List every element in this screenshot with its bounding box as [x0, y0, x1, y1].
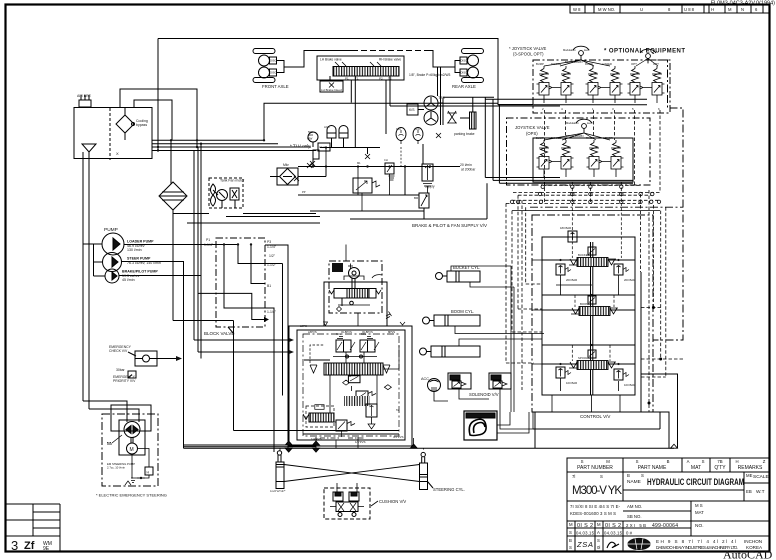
- svg-text:UNIT: UNIT: [334, 268, 341, 272]
- svg-text:lever: lever: [584, 48, 590, 52]
- svg-text:1-1/4": 1-1/4": [267, 310, 277, 314]
- supply reducing valve: [422, 164, 433, 181]
- svg-text:PUMP: PUMP: [104, 227, 118, 233]
- svg-text:AM NO.: AM NO.: [627, 504, 642, 509]
- spool 1: [569, 258, 616, 267]
- svg-text:MAT: MAT: [695, 510, 704, 515]
- svg-text:M W NO.: M W NO.: [598, 7, 615, 12]
- return filter: [159, 140, 187, 214]
- wire: bundle drop verticals: [193, 151, 195, 341]
- svg-text:CH: CH: [384, 158, 388, 162]
- wire: MCV bottom to cushion/bus: [285, 437, 677, 452]
- svg-text:H: H: [735, 459, 738, 464]
- rail interdrops: [312, 159, 314, 167]
- svg-text:30bar: 30bar: [116, 368, 126, 372]
- svg-text:BRAKE/PILOT PUMP: BRAKE/PILOT PUMP: [122, 270, 158, 274]
- drops below valve to manifold: [552, 395, 620, 412]
- wire: block valve outputs: [265, 245, 288, 448]
- svg-text:LOWER: LOWER: [602, 62, 612, 66]
- steering unit: [324, 261, 406, 326]
- wire: cluster verticals: [404, 167, 406, 196]
- svg-text:DISC: DISC: [270, 71, 277, 75]
- svg-text:M: M: [606, 459, 610, 464]
- pilot rail: [320, 147, 380, 149]
- svg-text:BOOM CYL.: BOOM CYL.: [451, 309, 474, 314]
- svg-text:b/W: b/W: [307, 137, 313, 141]
- svg-text:100 BAR: 100 BAR: [624, 383, 635, 387]
- svg-text:PART NAME: PART NAME: [638, 465, 667, 471]
- brake valve assembly: [317, 56, 451, 92]
- svg-text:supply: supply: [425, 185, 435, 189]
- svg-text:7l: 7l: [572, 474, 575, 479]
- svg-text:3: 3: [11, 538, 18, 553]
- svg-text:* ELECTRIC EMERGENCY STEERI: * ELECTRIC EMERGENCY STEERING: [96, 493, 167, 498]
- svg-text:REAR AXLE: REAR AXLE: [452, 84, 476, 89]
- svg-text:(OPS): (OPS): [526, 131, 538, 136]
- cushion valve: [324, 483, 406, 519]
- svg-text:S: S: [641, 473, 644, 478]
- control valve bank: [532, 203, 653, 419]
- pressure line: [590, 242, 592, 395]
- inner right vertical: [640, 272, 642, 412]
- svg-text:L8PVS: L8PVS: [308, 330, 317, 334]
- svg-text:* JOYSTICK VALVE: * JOYSTICK VALVE: [509, 46, 547, 51]
- svg-text:S: S: [569, 530, 572, 535]
- svg-text:S: S: [636, 459, 639, 464]
- wire: top-left return steps: [120, 89, 197, 147]
- svg-text:SOLENOID V/V: SOLENOID V/V: [469, 392, 499, 397]
- svg-text:BUMP: BUMP: [536, 62, 544, 66]
- svg-text:500: 500: [308, 130, 313, 134]
- front axle: [253, 49, 352, 90]
- svg-text:180 BAR: 180 BAR: [560, 226, 571, 230]
- node dots on bundle: [157, 139, 265, 152]
- relief pair row3: [556, 367, 571, 378]
- svg-text:RAISE: RAISE: [586, 136, 594, 140]
- svg-text:B: B: [627, 473, 630, 478]
- gauge: TLV: [308, 132, 318, 142]
- wire: steering unit connections: [345, 245, 347, 262]
- wire: MCV risers to bucket/boom: [412, 271, 445, 338]
- svg-text:200 BAR: 200 BAR: [566, 278, 577, 282]
- joystick valve 1 (3-spool opt): [509, 46, 685, 113]
- wire: main vertical from top line down to tank bundle: [157, 39, 159, 151]
- svg-text:0 #: 0 #: [626, 531, 633, 536]
- optional equipment boundary: [647, 60, 668, 95]
- relief below: [336, 420, 347, 431]
- svg-text:OPT: OPT: [631, 62, 637, 66]
- lower rails: [298, 194, 419, 196]
- wire: steer pump line drop: [183, 262, 185, 449]
- svg-text:W 8: W 8: [573, 7, 581, 12]
- internal galleries: [289, 338, 399, 437]
- svg-text:BRAKE & PILOT & FAN SUPPL: BRAKE & PILOT & FAN SUPPLY V/V: [412, 223, 487, 228]
- accumulators: [327, 126, 336, 139]
- below spool components: [348, 376, 360, 383]
- wire: brake valve ports down to pilot rail: [350, 80, 352, 103]
- svg-text:NO.: NO.: [695, 523, 704, 529]
- svg-text:REMARKS: REMARKS: [738, 465, 763, 471]
- svg-text:76.3 cc/rev, 140 l/min: 76.3 cc/rev, 140 l/min: [127, 261, 161, 265]
- svg-text:LOWER: LOWER: [603, 136, 613, 140]
- inlet relief: [568, 231, 577, 242]
- main supply rail: [298, 166, 460, 168]
- svg-text:M: M: [569, 522, 573, 527]
- svg-text:A: A: [687, 459, 690, 464]
- svg-text:0I S 2: 0I S 2: [605, 523, 621, 529]
- svg-text:T/M: T/M: [438, 96, 445, 100]
- svg-text:lever: lever: [587, 121, 593, 125]
- svg-text:DISC: DISC: [461, 71, 468, 75]
- svg-text:SOL: SOL: [361, 332, 367, 336]
- svg-text:Z: Z: [763, 459, 766, 464]
- svg-text:100 BAR: 100 BAR: [566, 381, 577, 385]
- svg-text:HYDRAULIC CIRCUIT DIAGRAM: HYDRAULIC CIRCUIT DIAGRAM: [647, 477, 744, 487]
- tank internal filter (cooling bypass): [116, 115, 134, 133]
- wire: control valve bottom box: [535, 411, 651, 413]
- fan motor assembly: [209, 178, 245, 208]
- svg-text:2XI 5B: 2XI 5B: [626, 523, 646, 528]
- svg-text:A: A: [597, 530, 600, 535]
- svg-text:ACC: ACC: [421, 377, 429, 381]
- svg-text:FRONT AXLE: FRONT AXLE: [262, 84, 289, 89]
- block valve: [204, 238, 283, 396]
- svg-text:NAME: NAME: [627, 479, 641, 485]
- daewoo logo: [627, 538, 651, 551]
- port stubs on left edge: [532, 260, 542, 364]
- main control valve MCV: [289, 282, 412, 446]
- joystick valve 2 (OPS): [507, 118, 651, 243]
- svg-text:LH Brake bleed: LH Brake bleed: [321, 88, 342, 92]
- svg-text:P2: P2: [379, 77, 383, 81]
- svg-text:CHECK V/V: CHECK V/V: [109, 349, 128, 353]
- svg-text:PP: PP: [302, 190, 306, 194]
- svg-text:RH Brake valve: RH Brake valve: [379, 58, 401, 62]
- svg-text:AutoCAD: AutoCAD: [723, 548, 773, 560]
- svg-text:BOOM DOWN: BOOM DOWN: [566, 134, 584, 138]
- svg-text:1/8", Brake P=60kg/cm2/W3: 1/8", Brake P=60kg/cm2/W3: [409, 73, 451, 77]
- hydraulic tank: [74, 94, 152, 160]
- svg-text:H: H: [711, 7, 714, 12]
- left pilot block: [306, 406, 334, 427]
- svg-text:0l: 0l: [597, 545, 600, 550]
- wire: cylinder feeds to valve: [511, 200, 544, 412]
- svg-text:M: M: [597, 522, 601, 527]
- svg-text:Modulation: Modulation: [566, 121, 579, 125]
- check valve CH: [385, 163, 394, 174]
- svg-text:M: M: [130, 447, 134, 453]
- svg-text:CUSHION V/V: CUSHION V/V: [379, 499, 406, 504]
- svg-text:100: 100: [396, 127, 401, 131]
- svg-text:SOL: SOL: [336, 332, 342, 336]
- svg-text:P3: P3: [267, 240, 271, 244]
- svg-text:(3-SPOOL OPT): (3-SPOOL OPT): [513, 52, 544, 57]
- steering cylinders: [270, 438, 465, 493]
- spool 2: [571, 307, 618, 316]
- svg-text:1-1/2": 1-1/2": [267, 263, 277, 267]
- svg-text:STEERING CYL.: STEERING CYL.: [433, 487, 465, 492]
- svg-text:S: S: [702, 459, 705, 464]
- svg-text:04.03.15: 04.03.15: [604, 531, 623, 536]
- throttle X marks: [294, 163, 312, 181]
- svg-text:P1: P1: [345, 77, 349, 81]
- svg-text:45 l/min: 45 l/min: [122, 278, 135, 282]
- title block: [567, 458, 770, 552]
- pilot dashed drops to spool ends: [572, 203, 621, 361]
- svg-text:KDES-001600 3 S M S: KDES-001600 3 S M S: [570, 511, 616, 516]
- svg-text:LOADER PUMP: LOADER PUMP: [127, 240, 154, 244]
- parking brake actuator: [470, 112, 477, 129]
- svg-text:PART NUMBER: PART NUMBER: [577, 465, 613, 471]
- wire: return riser to y=103 rail: [264, 103, 390, 140]
- wire: joystick port drops / interconnect grid: [506, 110, 683, 412]
- suction manifold: [93, 244, 95, 276]
- wire: top main return line: [158, 39, 533, 105]
- svg-text:SB NO.: SB NO.: [627, 514, 642, 519]
- wire: suction lines from tank: [82, 152, 84, 401]
- svg-text:L8PS: L8PS: [300, 324, 307, 328]
- wire: MCV tank return links: [194, 339, 289, 341]
- svg-text:1/2": 1/2": [269, 254, 276, 258]
- svg-text:S: S: [600, 474, 603, 479]
- svg-text:BUMP: BUMP: [536, 136, 544, 140]
- svg-text:DIGGLE: DIGGLE: [551, 62, 561, 66]
- svg-text:MAT: MAT: [691, 465, 701, 471]
- AutoCAD signature: [723, 548, 773, 560]
- svg-text:BLOCK VALVE: BLOCK VALVE: [204, 331, 234, 336]
- dashed verticals joystick1 to rows: [544, 110, 546, 185]
- svg-text:BOOM DOWN: BOOM DOWN: [565, 60, 583, 64]
- svg-text:S: S: [597, 538, 600, 543]
- svg-text:bypass: bypass: [136, 123, 147, 127]
- svg-text:B1: B1: [267, 284, 271, 288]
- emergency steering: [96, 405, 167, 498]
- svg-text:M1: M1: [357, 161, 361, 165]
- svg-text:AIR BRE: AIR BRE: [77, 94, 92, 98]
- svg-text:Ta: Ta: [396, 408, 399, 412]
- svg-text:SCALE: SCALE: [753, 474, 769, 480]
- breather: [79, 100, 91, 107]
- emergency check valve: [109, 345, 182, 383]
- spool center detail boxes: [588, 247, 596, 255]
- svg-text:CONTROL V/V: CONTROL V/V: [580, 414, 610, 419]
- suction strainer: [82, 144, 96, 152]
- svg-text:* TLV only: * TLV only: [290, 144, 311, 149]
- pressure reducer right: [366, 404, 377, 417]
- svg-text:RAISE: RAISE: [585, 62, 593, 66]
- svg-text:SPOOL: SPOOL: [578, 356, 588, 360]
- svg-text:U: U: [640, 7, 643, 12]
- svg-text:2.7cc, 10 l/min: 2.7cc, 10 l/min: [107, 466, 125, 470]
- svg-text:parking brake: parking brake: [454, 132, 475, 136]
- brake/pilot pump: [105, 269, 119, 283]
- svg-text:Mkr: Mkr: [283, 163, 290, 167]
- wire: pilot bus to joysticks: [485, 98, 647, 100]
- svg-text:8PVS: 8PVS: [388, 330, 395, 334]
- svg-text:STEER PUMP: STEER PUMP: [127, 257, 151, 261]
- solenoid spool lower: [344, 396, 370, 406]
- steering wheel sensor box: [464, 411, 533, 440]
- svg-text:1/4"PVS: 1/4"PVS: [355, 440, 366, 444]
- svg-text:20 l/min: 20 l/min: [460, 163, 472, 167]
- svg-text:M300-V YK: M300-V YK: [572, 485, 622, 497]
- svg-text:DISC: DISC: [461, 59, 468, 63]
- svg-text:B: B: [569, 538, 572, 543]
- svg-text:M: M: [728, 7, 732, 12]
- svg-text:M S: M S: [695, 503, 703, 508]
- orifice cross: [447, 111, 457, 123]
- wire: OPS joystick bus: [485, 177, 560, 179]
- svg-text:OPT: OPT: [653, 62, 659, 66]
- crossing lines: [284, 465, 420, 482]
- svg-text:P1: P1: [206, 238, 210, 242]
- accumulator ACC: [421, 377, 448, 401]
- sheet revision text top-right: [711, 1, 775, 7]
- wire: pilot rail top right: [443, 96, 494, 98]
- ports bottom: [311, 408, 404, 444]
- svg-text:S: S: [569, 545, 572, 550]
- svg-text:Modulation: Modulation: [563, 48, 576, 52]
- svg-text:Q'TY: Q'TY: [714, 465, 726, 471]
- fan solenoid valve: [353, 178, 372, 193]
- main spool: [324, 363, 383, 375]
- steer pump: [103, 253, 122, 272]
- brake & pilot & fan supply cluster: [294, 125, 487, 228]
- svg-text:DISC: DISC: [270, 59, 277, 63]
- svg-text:PRIORITY V/V: PRIORITY V/V: [113, 379, 136, 383]
- svg-text:130 l/min: 130 l/min: [127, 248, 142, 252]
- svg-text:04.03.15: 04.03.15: [576, 531, 595, 536]
- relief pair row1: [556, 264, 571, 275]
- dashed verticals joystick2 ports down: [544, 182, 546, 203]
- svg-text:200 BAR: 200 BAR: [624, 278, 635, 282]
- svg-text:FL0M3-04C3-A2V.0(1994): FL0M3-04C3-A2V.0(1994): [711, 1, 775, 7]
- svg-text:Tank Fan motor: Tank Fan motor: [220, 179, 245, 183]
- wire: bottom long bus: [184, 447, 675, 449]
- PUMP group: [83, 227, 238, 283]
- svg-text:N: N: [741, 7, 744, 12]
- solenoid valves: [448, 373, 533, 429]
- svg-text:EB: EB: [746, 489, 752, 494]
- small box AJ-1: [318, 143, 330, 151]
- rear axle: [352, 49, 484, 90]
- T/M and parking brake: [407, 96, 476, 136]
- wire: rear brake line to T/M: [437, 67, 439, 96]
- svg-text:ACC: ACC: [324, 125, 330, 129]
- svg-text:4-1/2"x2"x27": 4-1/2"x2"x27": [270, 489, 286, 493]
- svg-text:9E: 9E: [43, 546, 50, 552]
- right dashed risers: [640, 194, 642, 272]
- spool 3: [569, 361, 616, 370]
- svg-text:1-1/4": 1-1/4": [204, 243, 214, 247]
- loader pump: [102, 233, 124, 255]
- pilot solenoid pairs: [336, 340, 344, 352]
- svg-text:OL8PVS: OL8PVS: [341, 330, 352, 334]
- row1 work lines: [542, 259, 577, 261]
- svg-text:0I S 2: 0I S 2: [577, 523, 593, 529]
- svg-text:499-00064: 499-00064: [652, 523, 678, 529]
- wire: left suction risers to emergency steering: [83, 401, 127, 422]
- svg-text:1-1/4": 1-1/4": [267, 245, 277, 249]
- check valve w/ bypass filter: [270, 163, 326, 185]
- boom cylinders: [420, 309, 545, 357]
- svg-text:ZSA: ZSA: [576, 540, 593, 549]
- svg-text:INCHON: INCHON: [744, 539, 762, 544]
- svg-text:7B: 7B: [717, 459, 722, 464]
- svg-text:X: X: [116, 151, 119, 156]
- svg-text:K/S: K/S: [409, 108, 415, 112]
- svg-text:U 8 8: U 8 8: [684, 7, 695, 12]
- steering spool: [347, 289, 369, 299]
- third-angle projection table bottom-left: [6, 504, 61, 553]
- svg-text:7I S/XI 8 SI E 4I4 S 7I E-: 7I S/XI 8 SI E 4I4 S 7I E-: [570, 504, 621, 509]
- svg-text:B: B: [667, 459, 670, 464]
- 20 l/min label: [460, 163, 476, 172]
- wire: tank return bundle: [152, 139, 264, 141]
- svg-text:ACC: ACC: [414, 127, 420, 131]
- svg-text:3/4"PVS: 3/4"PVS: [393, 435, 404, 439]
- left stack of dashed drops into control valve: [505, 203, 507, 363]
- svg-text:W.T: W.T: [756, 489, 765, 495]
- bucket cylinder: [436, 265, 515, 287]
- svg-text:DIGGLE: DIGGLE: [551, 136, 561, 140]
- svg-text:LH Brake valve: LH Brake valve: [320, 58, 342, 62]
- wire: filter/fan to rails: [173, 213, 209, 215]
- svg-text:Zf: Zf: [24, 540, 35, 552]
- brake apply valve: [419, 193, 429, 208]
- svg-text:ME: ME: [746, 473, 753, 478]
- svg-text:at 200bar: at 200bar: [461, 168, 476, 172]
- revision header table: [570, 5, 770, 14]
- svg-text:S: S: [581, 459, 584, 464]
- brake bleed box: [320, 81, 343, 92]
